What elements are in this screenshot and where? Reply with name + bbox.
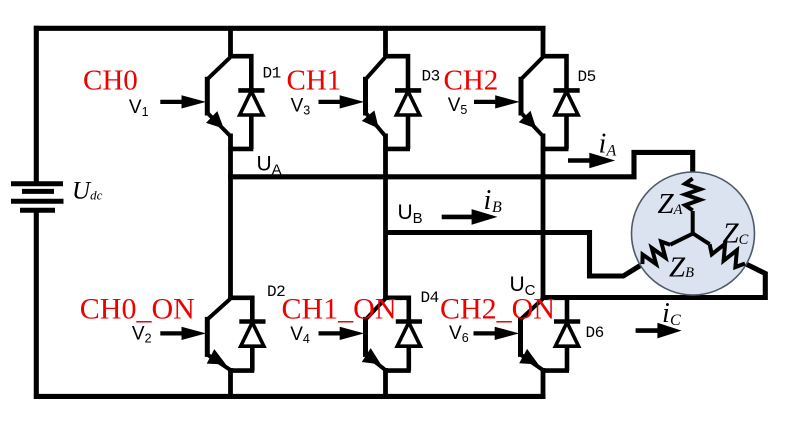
wire D4 bottom lead to emitter node	[383, 368, 411, 373]
label D4	[421, 289, 439, 307]
wire V4 collector branch / D4 top lead	[383, 298, 409, 322]
diode D2	[239, 322, 265, 371]
wire V3 collector branch / D3 top lead	[383, 56, 408, 90]
svg-text:D6: D6	[586, 324, 604, 342]
svg-text:i: i	[484, 185, 492, 216]
label ZB	[669, 251, 694, 283]
svg-text:UA: UA	[257, 152, 282, 178]
load circle (three-phase Y load)	[632, 172, 755, 295]
transistor V5	[519, 57, 543, 135]
node UA label	[257, 152, 282, 178]
label CH2	[444, 65, 499, 97]
label V5	[448, 95, 468, 117]
diode D1	[238, 90, 264, 148]
wire V2 collector branch / D2 top lead	[228, 298, 252, 322]
wire phase A output UA to load	[228, 152, 693, 181]
diode D3	[395, 90, 421, 148]
svg-text:CH2: CH2	[444, 65, 499, 97]
label iA	[599, 129, 617, 160]
node UB label	[398, 201, 423, 227]
svg-text:CH1: CH1	[287, 65, 342, 97]
svg-text:i: i	[662, 298, 670, 329]
label V6	[449, 323, 469, 345]
resistor ZC	[693, 234, 745, 268]
label iB	[484, 185, 503, 216]
wire V1 collector branch / D1 top lead	[228, 56, 251, 90]
wire phase leg C vertical	[541, 26, 546, 399]
resistor ZB	[642, 234, 693, 265]
gate drive arrow into V5 base	[474, 95, 520, 108]
label D5	[578, 68, 596, 86]
label D1	[263, 65, 281, 83]
gate drive arrow into V2 base	[160, 327, 206, 340]
label V3	[291, 95, 311, 117]
wire D1 bottom lead to emitter node	[228, 147, 253, 152]
label CH1	[287, 65, 342, 97]
current arrow iB	[442, 209, 498, 225]
label D2	[267, 283, 285, 301]
svg-text:D4: D4	[421, 289, 439, 307]
label V1	[129, 97, 149, 119]
node UC label	[510, 273, 536, 299]
svg-text:Udc: Udc	[72, 178, 103, 205]
transistor V6	[519, 299, 542, 370]
label D6	[586, 324, 604, 342]
label CH1_ON	[282, 293, 397, 326]
current arrow iC	[636, 323, 682, 339]
svg-text:D1: D1	[263, 65, 281, 83]
svg-text:UB: UB	[398, 201, 423, 227]
label V2	[132, 324, 152, 346]
svg-text:V4: V4	[290, 324, 310, 346]
svg-text:V3: V3	[291, 95, 311, 117]
svg-text:A: A	[606, 143, 617, 160]
gate drive arrow into V1 base	[160, 95, 206, 108]
label CH0_ON	[80, 293, 195, 326]
svg-text:V6: V6	[449, 323, 469, 345]
label D3	[422, 68, 440, 86]
wire phase leg B vertical	[383, 26, 388, 399]
label ZA	[658, 188, 683, 220]
gate drive arrow into V4 base	[319, 327, 365, 340]
svg-text:CH0: CH0	[83, 65, 138, 97]
gate drive arrow into V3 base	[319, 95, 365, 108]
svg-text:D3: D3	[422, 68, 440, 86]
svg-text:V1: V1	[129, 97, 149, 119]
wire V6 collector branch / D6 top lead	[541, 298, 567, 322]
svg-text:V5: V5	[448, 95, 468, 117]
gate drive arrow into V6 base	[474, 327, 520, 340]
wire left DC bus (battery to rails)	[34, 26, 39, 399]
diode D5	[554, 90, 580, 148]
battery Udc (DC source plates)	[11, 184, 64, 210]
diode D6	[554, 322, 580, 371]
wire V5 collector branch / D5 top lead	[541, 56, 567, 90]
wire D2 bottom lead to emitter node	[228, 368, 254, 373]
transistor V4	[362, 299, 385, 370]
label CH2_ON	[440, 293, 555, 326]
label Udc	[72, 178, 103, 205]
svg-text:i: i	[599, 129, 607, 160]
svg-text:CH1_ON: CH1_ON	[282, 293, 397, 326]
transistor V3	[362, 57, 385, 135]
wire phase C output UC to load	[543, 264, 765, 298]
transistor V2	[207, 299, 230, 370]
svg-text:C: C	[670, 312, 681, 329]
svg-text:V2: V2	[132, 324, 152, 346]
svg-text:CH2_ON: CH2_ON	[440, 293, 555, 326]
wire D3 bottom lead to emitter node	[383, 147, 410, 152]
wire phase leg A vertical	[228, 26, 233, 399]
label V4	[290, 324, 310, 346]
transistor V1	[206, 57, 230, 135]
wire bottom DC- rail	[34, 394, 546, 399]
label iC	[662, 298, 681, 329]
current arrow iA	[568, 153, 615, 169]
label ZC	[723, 218, 749, 250]
svg-text:CH0_ON: CH0_ON	[80, 293, 195, 326]
wire D6 bottom lead to emitter node	[541, 368, 569, 373]
svg-text:D5: D5	[578, 68, 596, 86]
label CH0 (gate signal channel)	[83, 65, 138, 97]
wire phase B output UB to load	[386, 233, 643, 277]
diode D4	[396, 322, 422, 371]
wire top DC+ rail	[34, 26, 546, 31]
resistor ZA	[685, 179, 700, 235]
wire D5 bottom lead to emitter node	[541, 147, 569, 152]
svg-text:B: B	[492, 199, 502, 216]
